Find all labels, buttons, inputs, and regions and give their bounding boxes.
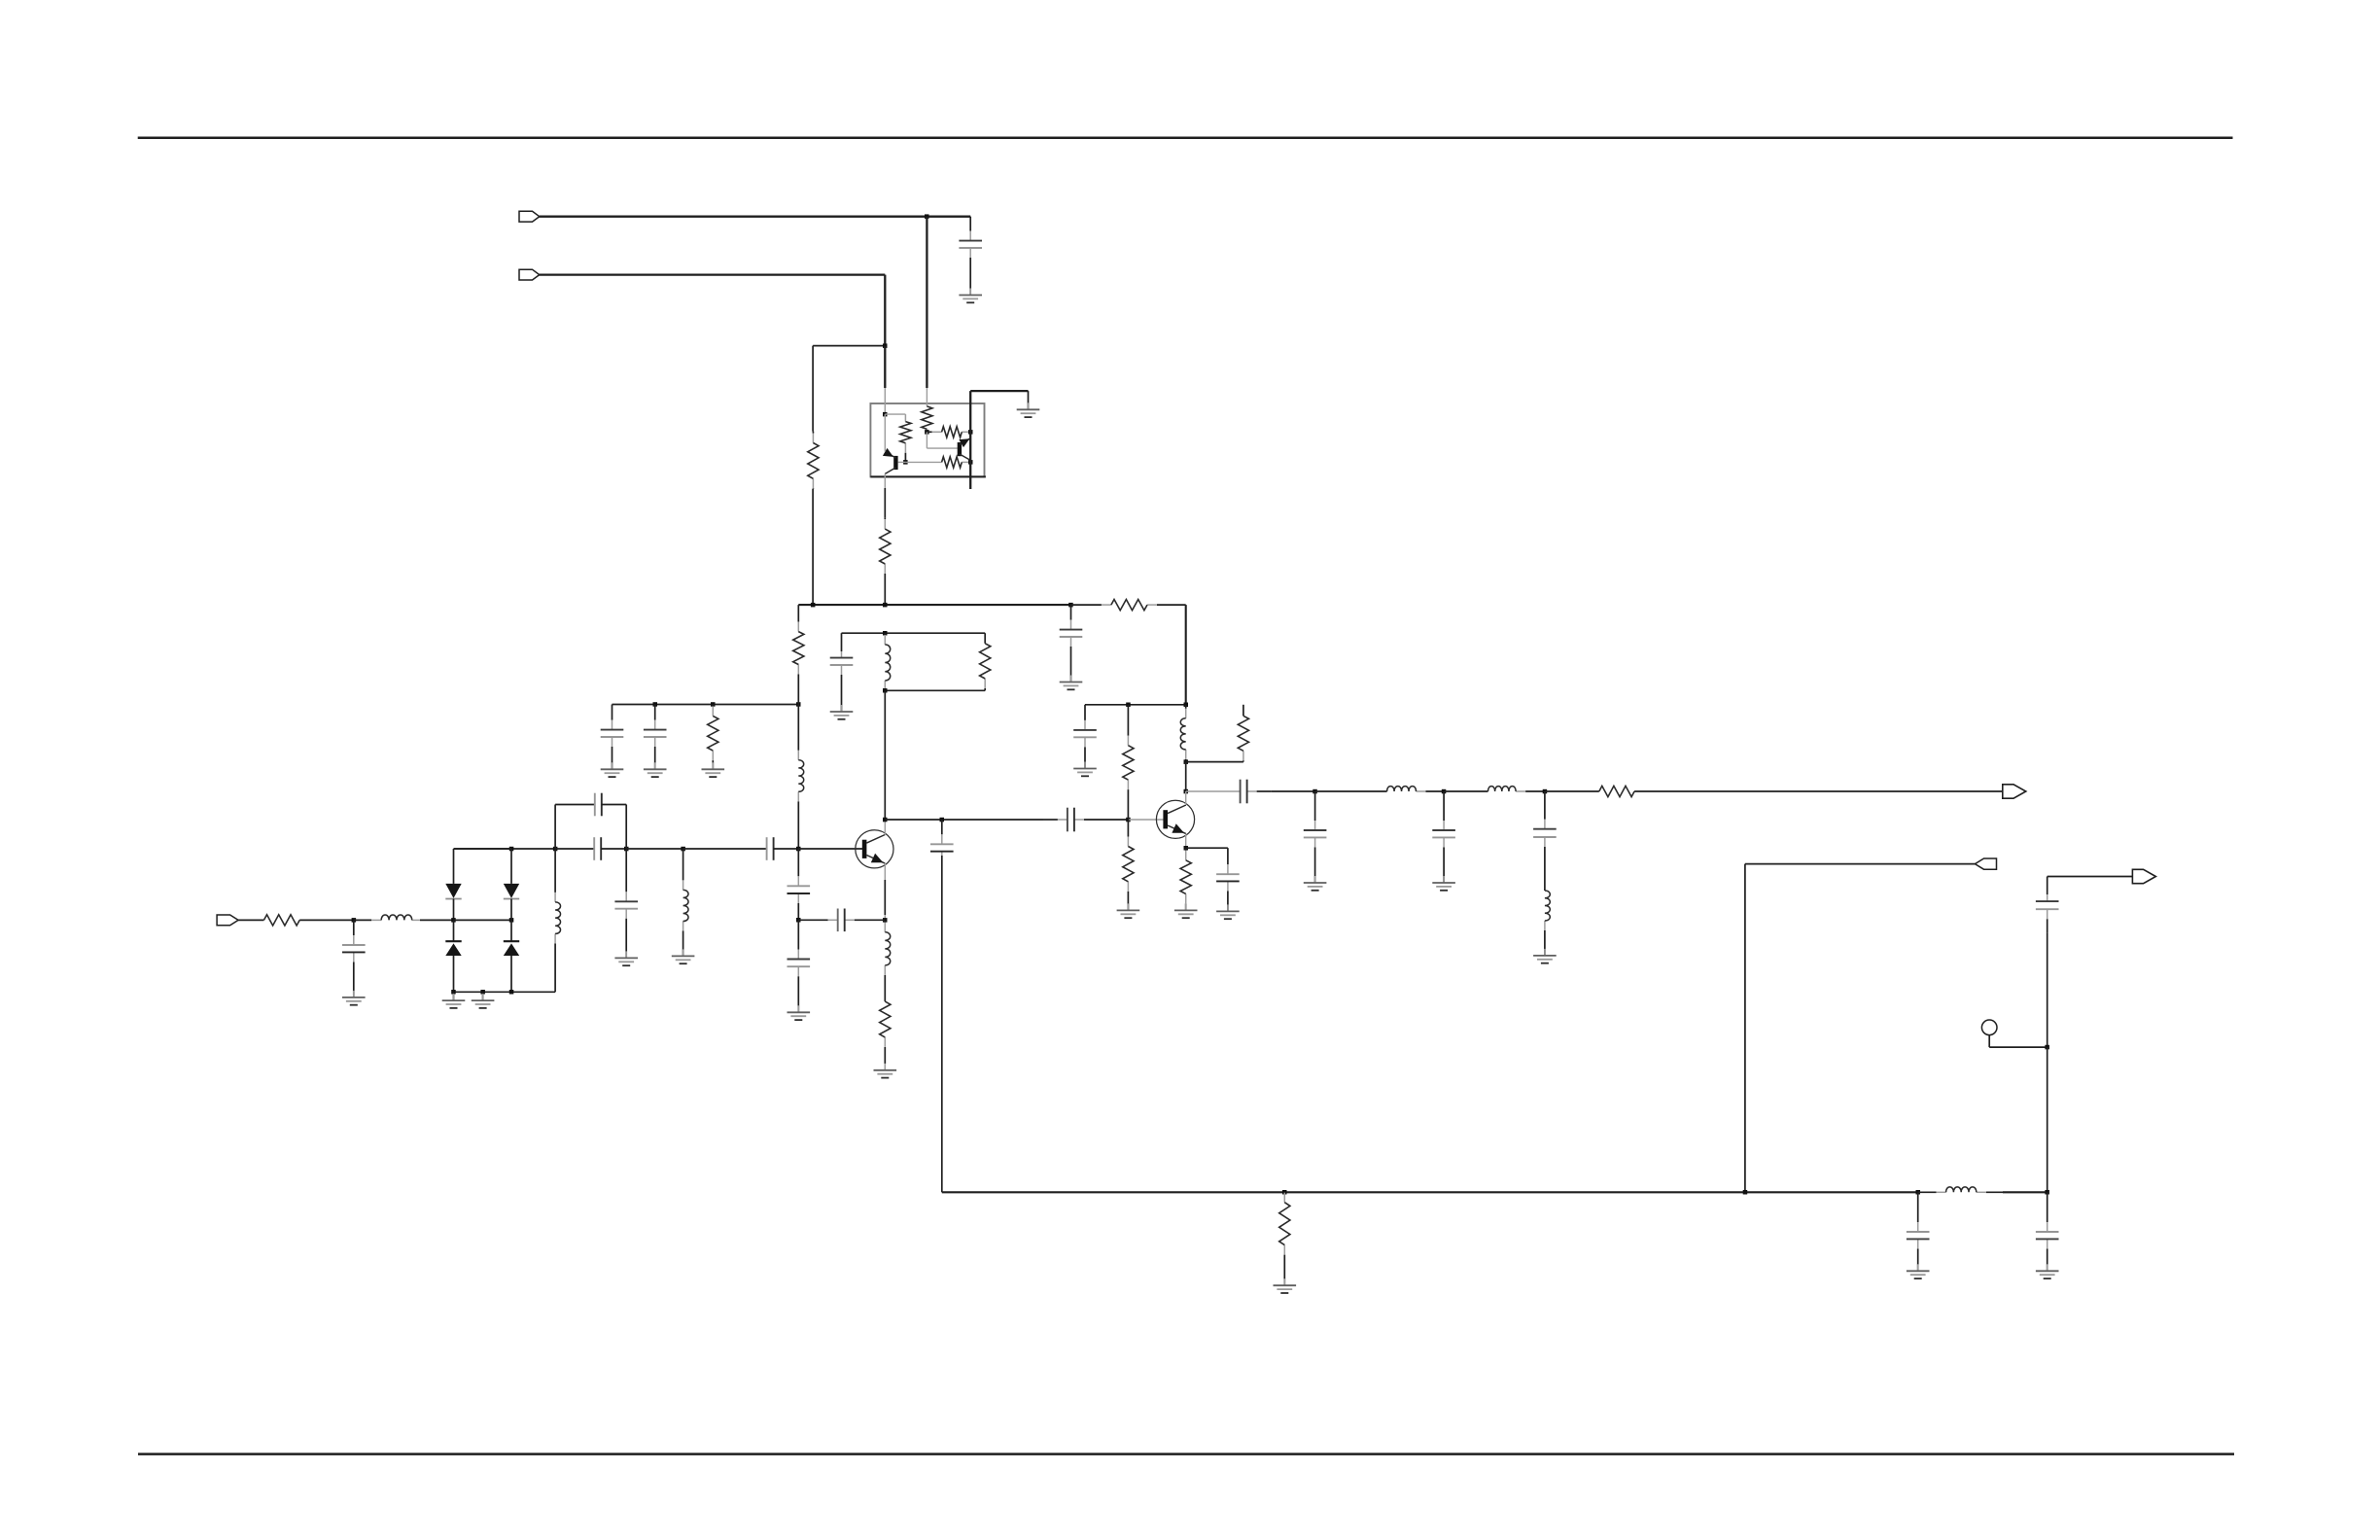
wire U1 right rail vertical: [969, 391, 971, 489]
capacitor C12: [787, 920, 811, 1012]
wire group line y724: [612, 704, 799, 706]
inductor L6 (emitter): [885, 920, 890, 990]
wire B+ line 2 drop: [884, 275, 886, 346]
ground below C2: [1060, 676, 1083, 690]
ground below C10: [342, 991, 366, 1005]
capacitor C5: [644, 705, 667, 769]
wire sense corner top: [2047, 876, 2133, 878]
wire x910 to top rail: [884, 575, 886, 605]
junction group line x=673: [653, 702, 658, 707]
ground below C19: [1304, 876, 1327, 891]
wire emitter chain low: [884, 1048, 886, 1064]
capacitor C8 (parallel top): [595, 793, 602, 817]
wire emitter chain mid: [884, 990, 886, 1001]
junction Q2 collector out: [1184, 789, 1189, 794]
wire output seg2: [1315, 790, 1387, 792]
resistor R12 (emitter): [880, 1001, 891, 1048]
junction x821 y946: [796, 918, 801, 923]
wire Q3 base lead: [898, 461, 906, 463]
wire control run left: [1745, 863, 1976, 865]
junction stage2 top x=1160: [1126, 703, 1131, 708]
wire Q2 base lead: [1128, 819, 1163, 821]
junction bottom rail x=1972: [1916, 1190, 1921, 1195]
junction output x=1485: [1442, 789, 1447, 794]
ground below C12: [787, 1005, 811, 1020]
junction U1 R3 bottom node: [925, 430, 929, 435]
capacitor C20: [1432, 791, 1455, 883]
resistor R4 (U1 upper): [927, 427, 970, 437]
wire ground drop x1057: [1028, 391, 1030, 409]
wire base line seg6: [774, 848, 799, 850]
resistor R18 (rail load): [1279, 1192, 1290, 1284]
connector J6 sense arrow: [2132, 869, 2155, 883]
wire bridge top rail: [454, 848, 512, 850]
wire TP1 link right: [1989, 1046, 2047, 1048]
junction Q2 base node: [1126, 818, 1131, 822]
ground below C1: [959, 289, 982, 303]
ground below bridge left: [442, 994, 466, 1008]
wire B+ line 1 to bypass corner: [927, 216, 970, 218]
junction U1 base node Q3: [903, 460, 908, 465]
wire x836 upper segment: [812, 346, 814, 432]
junction base line x=644: [624, 847, 629, 852]
capacitor C6 (series): [594, 837, 601, 860]
wire input seg3: [420, 919, 454, 921]
wire TP1 stub down: [1988, 1035, 1990, 1048]
resistor R3 (U1 series): [922, 406, 932, 432]
transistor Q3 (PNP in U1): [883, 448, 898, 474]
ground below L10: [1533, 949, 1557, 963]
wire D1 to mid: [453, 899, 455, 921]
wire R13 to base: [1127, 790, 1129, 820]
wire x836 lower segment: [812, 489, 814, 605]
wire U1 box bottom emphasis: [870, 475, 986, 477]
node TP1 test point circle: [1981, 1020, 1997, 1035]
capacitor C11: [787, 849, 811, 920]
wire upper cap row right: [602, 804, 626, 806]
junction x969 y843: [940, 818, 945, 822]
wire B+ line 1 horizontal: [540, 216, 927, 218]
capacitor C23: [1907, 1192, 1930, 1271]
wire bottom-left rail: [511, 991, 555, 993]
junction Q2 emitter: [1184, 846, 1189, 851]
ground below R12: [874, 1064, 897, 1078]
capacitor C19: [1304, 791, 1327, 883]
junction top rail x=836: [811, 603, 816, 608]
junction output x=1352: [1312, 789, 1317, 794]
wire U1 emitter node to R2: [885, 413, 905, 415]
inductor L10 (trap): [1545, 891, 1550, 955]
connector J1 input flag (B+ line 1): [519, 211, 540, 222]
inductor L5 (input series): [354, 915, 420, 920]
ground below C20: [1432, 876, 1455, 891]
wire x969 long drop: [941, 856, 943, 1192]
connector J4 RF output arrow: [2003, 785, 2026, 798]
wire base line seg1: [454, 848, 556, 850]
wire bridge col2 upper: [510, 849, 512, 884]
resistor R2 (U1 bias): [900, 414, 911, 462]
inductor L1 (stage1 collector choke): [885, 633, 890, 690]
ground below bridge mid: [472, 994, 495, 1008]
junction bottom rail x=1795: [1743, 1190, 1748, 1195]
wire y651 left segment: [842, 632, 986, 634]
resistor R11 (input series): [263, 915, 299, 926]
diode D1: [445, 884, 461, 899]
diode D4: [504, 941, 519, 956]
resistor R10 (x821 dropper): [793, 605, 804, 676]
wire output run to connector: [1634, 790, 2003, 792]
wire emitter gnd stub: [884, 1064, 886, 1069]
capacitor C16: [1073, 705, 1097, 768]
wire U1 pin lead x953 gray: [926, 388, 927, 406]
wire U1 top to ground run: [970, 390, 1028, 392]
wire D2 to mid: [510, 899, 512, 921]
wire output seg4: [1545, 790, 1599, 792]
wire x644 upper riser: [625, 805, 627, 850]
transistor Q2 (final): [1156, 800, 1194, 838]
inductor L7 (stage2 choke): [1180, 705, 1185, 762]
wire sense drop mid: [2047, 933, 2048, 1047]
wire node A horizontal (x836-x910): [813, 345, 885, 347]
connector J5 control flag (points left): [1975, 858, 1996, 869]
wire bottom rail span1: [942, 1191, 1918, 1193]
capacitor C17: [1216, 848, 1240, 911]
transistor Q1 (driver): [856, 830, 893, 868]
resistor R9: [708, 705, 718, 769]
wire D3 to bottom rail: [453, 956, 455, 992]
wire Q2 collector riser: [1185, 762, 1187, 791]
ground below C16: [1073, 762, 1097, 777]
capacitor C15: [930, 820, 954, 856]
inductor L8 (output filter): [1387, 787, 1445, 791]
junction Q1 emitter: [883, 918, 888, 923]
wire Q2 collector lead: [1185, 791, 1187, 805]
wire input seg1: [238, 919, 263, 921]
capacitor C4: [601, 705, 624, 769]
junction bottom rail x=526: [509, 990, 514, 995]
ground below L4: [672, 949, 695, 963]
resistor R8 (parallel with L1): [980, 644, 991, 691]
junction node A at x=910: [883, 343, 888, 348]
wire x821 mid segment: [797, 676, 799, 705]
wire base line into Q1: [798, 848, 862, 850]
wire stage2 top line: [1085, 704, 1186, 706]
border bottom rule: [138, 1452, 2234, 1455]
wire sense drop upper: [2047, 877, 2048, 895]
junction base line x=702: [681, 847, 685, 852]
resistor R6 (x910 dropper): [880, 518, 891, 575]
junction bottom rail x=1321: [1282, 1190, 1287, 1195]
wire x910 regulator output upper: [884, 488, 886, 518]
junction B+ line 1 at x=953: [925, 214, 929, 219]
op-amp U1 regulator box outline: [870, 403, 984, 476]
wire input seg2: [299, 919, 354, 921]
wire C21 to L10: [1544, 861, 1546, 891]
wire Q2 emitter lead: [1185, 834, 1187, 849]
junction group line x=821: [796, 702, 801, 707]
wire x865 cap drop: [841, 633, 843, 651]
resistor R13 (bias upper): [1123, 705, 1134, 790]
wire Q2 emitter right: [1186, 847, 1228, 849]
capacitor C7 (series): [767, 837, 774, 860]
capacitor C9: [614, 849, 638, 958]
junction base line x=526: [509, 847, 514, 852]
junction U1 emitter node: [883, 412, 888, 417]
inductor L9 (output filter): [1488, 787, 1545, 791]
resistor R16 (Q2 emitter): [1180, 848, 1191, 910]
wire D4 to bottom rail: [510, 956, 512, 992]
wire bridge bottom rail: [454, 991, 512, 993]
border top rule: [138, 136, 2233, 139]
junction U1 R4 right node: [968, 430, 973, 435]
resistor R7 (rail series): [1071, 600, 1186, 611]
wire x571 upper riser: [554, 805, 556, 850]
capacitor C24: [2036, 1192, 2059, 1271]
inductor L2 (base feed choke): [798, 705, 803, 850]
wire Q1 emitter lead: [884, 863, 886, 920]
wire gnd stub x496: [482, 992, 484, 999]
junction base line x=821: [796, 847, 801, 852]
capacitor C22 (sense series): [2036, 894, 2059, 933]
ground right of U1: [1017, 402, 1040, 417]
junction bridge mid x=526: [509, 918, 514, 923]
resistor R14 (bias lower): [1123, 820, 1134, 910]
resistor R17 (output series): [1599, 786, 1634, 796]
junction U1 R5 right node: [968, 460, 973, 465]
ground below C3: [830, 705, 854, 719]
wire bridge mid link: [454, 919, 512, 921]
wire D4 feed: [510, 920, 512, 941]
junction group line x=733: [711, 702, 716, 707]
wire U1 base feed horizontal: [927, 447, 958, 449]
wire D3 feed: [453, 920, 455, 941]
wire gnd stub x466: [453, 992, 455, 999]
resistor R1 (x836 dropper): [808, 432, 819, 489]
wire B+ line 2 horizontal: [540, 273, 886, 275]
diode D2: [504, 884, 519, 899]
junction input x=364: [352, 918, 357, 923]
ground below C4: [601, 762, 624, 777]
wire control drop to rail: [1744, 864, 1746, 1193]
ground below C9: [614, 951, 638, 965]
capacitor C1 (B+ bypass): [959, 217, 982, 295]
junction top rail x=1101: [1068, 603, 1073, 608]
wire interstage black: [885, 819, 1043, 821]
wire output seg3: [1444, 790, 1487, 792]
transistor Q4 (NPN in U1): [958, 438, 971, 461]
wire R8 top lead: [984, 633, 986, 644]
capacitor C3 (collector line bypass): [830, 651, 854, 712]
wire Q3 base to R5: [905, 461, 941, 463]
capacitor C21: [1533, 791, 1557, 861]
junction Q1 collector: [883, 818, 888, 822]
junction y651 x=910: [883, 631, 888, 636]
wire x910 into regulator: [884, 346, 886, 388]
ground below R16: [1174, 903, 1198, 918]
resistor R5 (U1 lower): [942, 457, 971, 468]
ground below R18: [1274, 1278, 1297, 1293]
ground below R14: [1117, 903, 1140, 918]
junction top rail x=910: [883, 603, 888, 608]
capacitor C14 (interstage): [1043, 808, 1128, 832]
wire Q3 emitter up: [884, 414, 886, 452]
wire base line seg4: [626, 848, 682, 850]
junction base line x=571: [553, 847, 558, 852]
wire y710 bottom link: [885, 689, 985, 691]
wire U1 base feed vertical: [926, 432, 927, 448]
capacitor C10 (input shunt): [342, 920, 366, 997]
junction bottom rail x=466: [451, 990, 456, 995]
wire base line seg5: [683, 848, 767, 850]
wire base line seg2: [555, 848, 594, 850]
connector J3 RF input flag: [217, 915, 238, 926]
wire U1 pin lead x910 gray: [884, 388, 886, 414]
inductor L11 (rail filter): [1918, 1187, 2003, 1192]
wire Q1 collector lead: [884, 820, 886, 835]
junction bridge mid x=466: [451, 918, 456, 923]
wire bottom rail span2: [2003, 1191, 2047, 1193]
junction bottom rail x=496: [480, 990, 485, 995]
capacitor C13 (emitter coupling): [798, 909, 885, 932]
capacitor C2 (rail bypass): [1060, 605, 1083, 682]
wire top rail drop to stage2: [1185, 605, 1187, 705]
junction L7 bottom: [1184, 759, 1189, 764]
junction bottom rail x=2105: [2045, 1190, 2049, 1195]
wire output seg1: [1272, 790, 1315, 792]
wire top rail left span: [798, 604, 1070, 606]
ground below C23: [1907, 1264, 1930, 1278]
ground below C24: [2036, 1264, 2059, 1278]
junction output x=1589: [1543, 789, 1548, 794]
connector J2 input flag (B+ line 2): [519, 269, 540, 280]
wire L7R15 bottom link: [1186, 761, 1243, 763]
wire upper cap row left: [555, 804, 595, 806]
inductor L3: [555, 849, 560, 992]
inductor L4: [683, 849, 688, 956]
wire x910 to Q1 collector: [884, 690, 886, 820]
wire Q3 collector down: [884, 473, 886, 488]
capacitor C18 (output coupling): [1241, 780, 1272, 804]
wire sense drop lower: [2047, 1047, 2048, 1192]
wire x953 into regulator: [926, 217, 927, 388]
wire R15 top lead: [1242, 705, 1244, 717]
ground below R9: [702, 762, 725, 777]
ground below C17: [1216, 904, 1240, 919]
wire base line seg3: [601, 848, 626, 850]
junction y710 x=910: [883, 688, 888, 693]
resistor R15 (parallel with L7): [1238, 716, 1248, 761]
wire Q1 emitter black: [884, 880, 886, 915]
junction sense x=2105 y=1077: [2045, 1045, 2049, 1050]
ground below C5: [644, 762, 667, 777]
wire bridge col1 upper: [453, 849, 455, 884]
diode D3: [445, 941, 461, 956]
junction stage2 top x=1219: [1184, 703, 1189, 708]
wire output takeoff gray: [1186, 790, 1241, 792]
